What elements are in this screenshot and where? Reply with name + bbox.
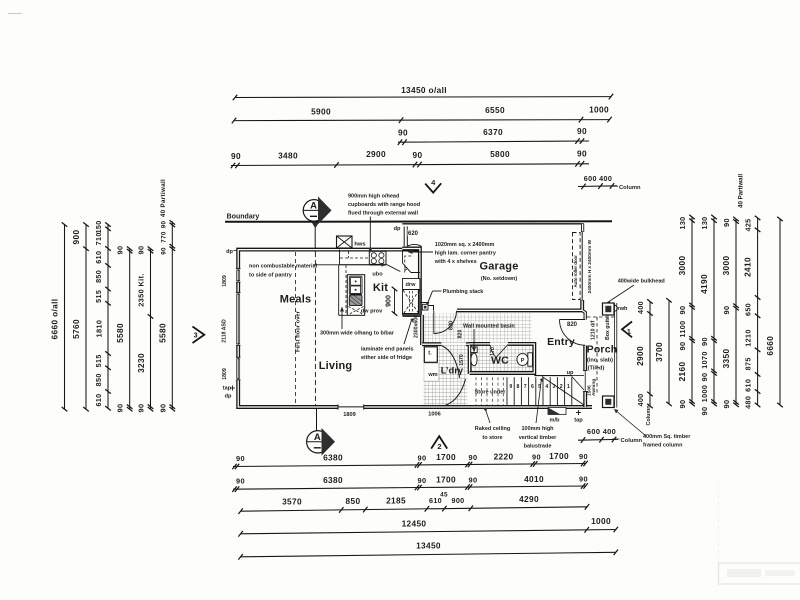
kitchen bench dashed overhead cupboards (340, 251, 369, 258)
svg-text:3000: 3000 (721, 256, 731, 276)
boundary line (225, 220, 612, 223)
svg-text:600 400: 600 400 (584, 174, 612, 183)
svg-text:90: 90 (116, 246, 125, 255)
dim top row 600/400 column (578, 174, 617, 189)
dim top row overall 13450 (233, 85, 613, 100)
svg-text:dw prov: dw prov (361, 309, 383, 315)
elevation marker 2 (431, 436, 447, 451)
svg-text:1809: 1809 (343, 412, 355, 418)
dim bottom row1 90/6380/90/1700/90/2220/90/1700/90 (232, 451, 588, 469)
svg-text:either side of fridge: either side of fridge (361, 355, 412, 361)
svg-text:170: 170 (490, 347, 496, 356)
svg-text:90: 90 (722, 400, 731, 409)
svg-text:90: 90 (678, 342, 687, 351)
svg-text:Column: Column (621, 438, 643, 444)
svg-text:Porch: Porch (587, 344, 618, 356)
svg-text:820: 820 (567, 322, 578, 328)
hws unit (337, 236, 366, 248)
svg-text:flued through external wall: flued through external wall (348, 211, 418, 217)
dim left partywall 90/770/90/40 + 5580/90 (157, 179, 175, 413)
window left 1809 upper (236, 269, 241, 283)
svg-text:wm: wm (427, 372, 437, 378)
laundry door arcs (442, 346, 466, 406)
svg-text:rwh: rwh (618, 306, 629, 312)
fridge cabinet dashed cross (403, 290, 420, 315)
svg-text:4: 4 (545, 384, 548, 390)
svg-text:dp: dp (226, 249, 233, 255)
svg-text:L’dry: L’dry (441, 366, 464, 376)
svg-text:1809: 1809 (222, 368, 228, 380)
svg-text:2400mm H x 2400mm W: 2400mm H x 2400mm W (587, 239, 593, 293)
svg-text:90: 90 (137, 246, 146, 255)
svg-text:90: 90 (116, 404, 125, 413)
svg-text:1700: 1700 (549, 451, 569, 461)
svg-text:cupboards with range hood: cupboards with range hood (348, 202, 420, 208)
kitchen bench back dashed (345, 265, 347, 315)
dim right overall 6660 (765, 217, 783, 408)
cooktop (369, 251, 386, 264)
svg-text:650: 650 (744, 303, 753, 316)
svg-text:90: 90 (469, 453, 478, 462)
svg-text:90: 90 (577, 126, 587, 136)
svg-text:1000: 1000 (700, 385, 709, 402)
svg-text:130: 130 (700, 216, 709, 229)
wc toilet right (517, 353, 532, 366)
svg-text:Plumbing stack: Plumbing stack (443, 289, 485, 295)
note plumbing stack (426, 289, 484, 306)
faint top-left scan mark (8, 13, 22, 15)
svg-text:(Tiled): (Tiled) (588, 366, 605, 372)
dim right chain 90/3000/90/3350/90 (721, 217, 739, 409)
svg-text:90: 90 (160, 247, 167, 255)
svg-text:100mm high: 100mm high (521, 426, 554, 432)
dim bottom 600/400 (578, 427, 618, 443)
svg-text:1020mm sq. x 2400mm: 1020mm sq. x 2400mm (435, 242, 495, 248)
note 300mm overhang (320, 307, 395, 337)
svg-text:Box gutter: Box gutter (605, 314, 611, 340)
svg-text:Store under: Store under (475, 390, 507, 396)
note 1020mm corner pantry (408, 242, 497, 265)
pantry drw box (403, 279, 420, 290)
laundry wm space (424, 364, 439, 382)
stair top edge right (572, 375, 584, 377)
porch column top rwh (603, 303, 629, 315)
elevation marker 1 (622, 322, 632, 338)
dim top row 90/3480/2900/90/5800/90 (231, 149, 589, 169)
island sink double bowl (349, 276, 362, 294)
svg-text:90: 90 (236, 454, 245, 463)
garage right wall lower + bottom wall (457, 300, 582, 310)
svg-text:850: 850 (94, 270, 103, 283)
dim bottom row3 3570/850/2185/610/45/900/4290 (238, 491, 589, 514)
svg-text:high lam. corner pantry: high lam. corner pantry (435, 251, 497, 257)
laundry top wall right + wc left wall (466, 344, 470, 374)
svg-text:12450: 12450 (402, 518, 427, 528)
svg-text:620: 620 (408, 231, 419, 237)
svg-text:1: 1 (627, 327, 631, 336)
note 400mm sq timber framed column (614, 409, 691, 449)
tap left (223, 386, 235, 392)
svg-text:6370: 6370 (483, 127, 503, 137)
svg-text:610: 610 (94, 251, 103, 264)
island dishwasher hatched (349, 295, 362, 306)
svg-text:1: 1 (567, 384, 570, 390)
dim top row 90/6370/90 (398, 126, 589, 145)
section marker A top cut arrow below boundary (312, 223, 319, 229)
svg-text:hws: hws (354, 242, 365, 248)
svg-text:2220: 2220 (494, 452, 514, 462)
dim right 3700 (654, 298, 672, 406)
dim 900 island (386, 287, 398, 316)
svg-text:1810: 1810 (95, 320, 104, 338)
svg-text:90: 90 (413, 150, 423, 160)
svg-text:3700: 3700 (654, 342, 664, 362)
svg-text:130: 130 (678, 216, 687, 229)
svg-text:6380: 6380 (323, 475, 343, 485)
svg-text:1210: 1210 (744, 329, 753, 346)
svg-text:875: 875 (744, 357, 753, 370)
porch column bottom (603, 396, 615, 408)
wc top right + right wall + bottom wall (470, 344, 535, 373)
svg-text:610: 610 (744, 379, 753, 392)
dim bottom row4 12450/1000 (238, 516, 618, 537)
tile floor hallway (424, 314, 532, 344)
garage partywall inner line (402, 223, 584, 225)
laundry top wall left segment (422, 342, 441, 346)
svg-text:drw: drw (406, 282, 417, 288)
section line A-A vertical (315, 199, 317, 431)
section marker A top (303, 197, 331, 225)
note raked ceiling to store (475, 408, 510, 441)
svg-text:1809: 1809 (222, 275, 228, 287)
svg-text:820: 820 (449, 321, 455, 330)
hall left wall piece (420, 315, 424, 345)
window bottom living 1809 (338, 404, 364, 409)
wall step hall (420, 303, 434, 311)
note 900mm high overhead cupboards (348, 194, 420, 254)
note laminate end panels (361, 318, 414, 361)
dim bottom row5 13450 (238, 541, 618, 560)
window left 2118 ASD (236, 293, 241, 346)
garage roller door dashed (573, 233, 581, 300)
svg-text:400: 400 (636, 393, 645, 406)
svg-text:2410: 2410 (743, 257, 753, 277)
svg-text:A: A (310, 201, 317, 212)
svg-text:6550: 6550 (485, 105, 505, 115)
kitchen counter front edge (340, 250, 401, 272)
svg-text:900: 900 (386, 295, 393, 307)
svg-text:1700: 1700 (436, 475, 456, 485)
garage right wall top corner (581, 224, 584, 232)
note wall mounted basin (463, 324, 515, 353)
stair landing edge (572, 377, 584, 391)
svg-text:non combustable material: non combustable material (249, 264, 318, 270)
tile floor laundry (424, 345, 468, 405)
stair treads numbered 9-1 (507, 377, 572, 405)
dim bottom row2 90/6380/90/1700/90/4010/90 (232, 474, 588, 492)
svg-text:Column: Column (646, 405, 652, 425)
svg-text:2118 ASD: 2118 ASD (222, 319, 228, 343)
svg-text:90: 90 (418, 453, 427, 462)
door 820 garage to hall (434, 311, 457, 334)
svg-text:900mm high o/head: 900mm high o/head (348, 194, 399, 200)
right wall lower to corner (583, 392, 587, 408)
svg-text:Living: Living (319, 360, 353, 372)
svg-text:dp: dp (225, 394, 232, 400)
dim right porch 400/2900/400 (635, 299, 653, 408)
svg-text:400mm Sq. timber: 400mm Sq. timber (643, 434, 691, 440)
window left 1809 lower (236, 357, 241, 380)
laundry tub (424, 347, 437, 363)
svg-text:515: 515 (94, 354, 103, 367)
svg-text:600 400: 600 400 (587, 427, 616, 436)
svg-text:3230: 3230 (136, 353, 146, 373)
porch bulkhead dashed (587, 317, 616, 394)
svg-text:Auto roller door: Auto roller door (573, 255, 578, 288)
svg-text:1700: 1700 (436, 452, 456, 462)
svg-text:90: 90 (236, 476, 245, 485)
svg-text:770: 770 (160, 231, 167, 243)
svg-text:1006: 1006 (428, 412, 440, 418)
stair winder diagonal (542, 377, 584, 406)
svg-text:9: 9 (509, 384, 512, 390)
svg-text:90: 90 (678, 306, 687, 315)
svg-text:3480: 3480 (278, 150, 298, 160)
svg-text:5900: 5900 (311, 107, 331, 117)
svg-text:40 Partiwall: 40 Partiwall (160, 179, 167, 217)
wc top wall left of door (470, 342, 490, 346)
svg-text:7: 7 (524, 384, 527, 390)
note 400wide bulkhead (606, 279, 665, 306)
svg-text:laminate end panels: laminate end panels (361, 347, 414, 353)
svg-text:90: 90 (398, 127, 408, 137)
external walls living block (238, 250, 592, 407)
svg-text:710: 710 (94, 232, 103, 245)
elevation marker 4 (425, 178, 441, 192)
svg-text:Awning: Awning (591, 379, 597, 396)
dim left 900/5760 (71, 222, 89, 411)
svg-text:480: 480 (744, 396, 753, 409)
svg-text:425: 425 (744, 218, 753, 231)
svg-text:90: 90 (577, 149, 587, 159)
svg-text:4290: 4290 (519, 494, 539, 504)
svg-text:with 4 x shelves: with 4 x shelves (434, 259, 477, 265)
door 620 garage top (404, 227, 421, 247)
svg-text:850: 850 (346, 496, 361, 506)
stair top edge (534, 375, 572, 377)
svg-text:P: P (521, 358, 525, 364)
svg-text:t.: t. (428, 351, 432, 357)
dim left 90/2350Kit/3230/90 (136, 246, 154, 413)
svg-text:90: 90 (700, 337, 709, 346)
svg-text:Raked ceiling: Raked ceiling (475, 426, 510, 432)
faint title block (719, 484, 800, 584)
svg-text:ubo: ubo (372, 272, 383, 278)
svg-text:framed column: framed column (643, 443, 683, 449)
porch right edge double line (615, 303, 617, 408)
svg-text:90: 90 (160, 221, 167, 229)
svg-text:up: up (567, 370, 574, 376)
svg-text:3350: 3350 (721, 349, 731, 369)
tap bottom right (574, 410, 583, 424)
svg-text:2160: 2160 (677, 362, 687, 382)
dim right chain 130/3000/90/1100/90/2160/90 (677, 215, 695, 409)
island bench outline (347, 275, 364, 316)
svg-text:90: 90 (418, 476, 427, 485)
svg-text:2: 2 (437, 442, 441, 451)
svg-text:3570: 3570 (282, 497, 302, 507)
island dashed cross (349, 307, 364, 315)
svg-text:90: 90 (722, 218, 731, 227)
tile floor wc (471, 345, 533, 372)
mb meter box (548, 408, 566, 424)
svg-text:5800: 5800 (490, 149, 510, 159)
svg-text:90: 90 (158, 404, 167, 413)
svg-text:900: 900 (71, 230, 81, 245)
svg-text:90: 90 (579, 452, 588, 461)
entry right wall stub above door (582, 310, 585, 319)
svg-text:90: 90 (678, 400, 687, 409)
svg-text:Meals: Meals (280, 294, 312, 306)
svg-text:Wall mounted basin: Wall mounted basin (463, 324, 515, 330)
svg-text:Garage: Garage (479, 261, 518, 273)
svg-text:850: 850 (94, 373, 103, 386)
svg-text:to side of pantry: to side of pantry (249, 273, 293, 279)
svg-text:90: 90 (579, 474, 588, 483)
svg-text:balustrade: balustrade (524, 444, 552, 450)
svg-text:Kit: Kit (373, 282, 388, 294)
svg-text:Entry: Entry (547, 336, 575, 348)
elevation marker 3 (193, 327, 205, 344)
dim right chain 130/4190/90/1070/90/1000/90 (699, 215, 717, 416)
svg-text:5580: 5580 (157, 323, 167, 343)
dim right chain 425/2410/650/1210/875/610/480 (743, 216, 761, 409)
svg-text:8: 8 (517, 384, 520, 390)
svg-text:to store: to store (482, 435, 502, 441)
svg-text:1000: 1000 (589, 105, 609, 115)
label First floor over dashed (296, 252, 302, 404)
breakfast bar overhang edge (339, 265, 348, 316)
svg-text:m/b: m/b (550, 418, 561, 424)
kitchen right wall + bottom return (402, 249, 420, 315)
entry right wall below door (583, 346, 587, 371)
corner pantry outline (403, 251, 420, 273)
svg-text:(inc. slab): (inc. slab) (587, 358, 613, 364)
svg-text:40 Partiwall: 40 Partiwall (738, 174, 745, 208)
svg-text:300mm wide o/hang to b/bar: 300mm wide o/hang to b/bar (320, 331, 395, 337)
svg-text:150: 150 (94, 220, 103, 233)
svg-text:tap: tap (223, 386, 232, 392)
svg-text:p: p (404, 266, 408, 272)
svg-text:2300x600: 2300x600 (414, 315, 420, 338)
svg-text:dp: dp (394, 226, 401, 232)
svg-text:4010: 4010 (524, 474, 544, 484)
svg-text:Column: Column (619, 185, 641, 191)
svg-text:6660: 6660 (765, 336, 775, 356)
svg-text:45: 45 (440, 491, 448, 498)
svg-text:vertical timber: vertical timber (519, 435, 557, 441)
note 100mm balustrade (519, 378, 557, 450)
garage roller door opening jamb line (581, 231, 583, 301)
svg-text:A: A (314, 432, 321, 443)
door 820 entry (560, 320, 586, 346)
note non combustable material (249, 263, 387, 279)
svg-text:90: 90 (700, 407, 709, 416)
svg-text:1070: 1070 (700, 351, 709, 368)
svg-text:tap: tap (574, 418, 583, 424)
plumbing stack box (422, 304, 428, 310)
svg-text:515: 515 (94, 290, 103, 303)
svg-text:2900: 2900 (366, 149, 386, 159)
svg-text:1570: 1570 (459, 354, 465, 366)
svg-text:90: 90 (231, 151, 241, 161)
svg-text:4190: 4190 (699, 274, 709, 294)
svg-text:90: 90 (532, 453, 541, 462)
svg-text:6: 6 (531, 384, 534, 390)
stair store-under dashed treads (476, 377, 503, 405)
svg-text:5580: 5580 (115, 323, 125, 343)
svg-text:1100: 1100 (678, 321, 687, 338)
wc door leaf (491, 345, 509, 358)
svg-text:(No. setdown): (No. setdown) (481, 276, 518, 282)
wc toilet left (471, 347, 477, 366)
svg-text:2185: 2185 (386, 496, 406, 506)
svg-text:90: 90 (722, 306, 731, 315)
dim left overall 6660 (50, 222, 68, 411)
svg-text:400: 400 (636, 301, 645, 314)
window entry right wall (583, 371, 588, 392)
label 1506 awning rotated (587, 379, 597, 396)
section marker A bottom (307, 428, 335, 456)
svg-text:90: 90 (700, 373, 709, 382)
dim top row 5900/6550/1000 (232, 105, 612, 124)
svg-text:1210 d/f: 1210 d/f (591, 320, 597, 340)
svg-text:13450 o/all: 13450 o/all (401, 85, 447, 95)
svg-text:Boundary: Boundary (227, 214, 260, 221)
svg-text:6660 o/all: 6660 o/all (50, 299, 60, 340)
svg-text:2900: 2900 (635, 346, 645, 366)
svg-text:400wide bulkhead: 400wide bulkhead (618, 279, 665, 285)
svg-text:13450: 13450 (416, 541, 441, 551)
svg-text:5760: 5760 (71, 319, 81, 339)
svg-text:90: 90 (469, 476, 478, 485)
svg-text:6380: 6380 (323, 452, 343, 462)
svg-text:90: 90 (137, 404, 146, 413)
svg-text:3000: 3000 (677, 256, 687, 276)
svg-text:1000: 1000 (591, 516, 611, 526)
svg-text:2350 Kit.: 2350 Kit. (137, 273, 146, 307)
dim left chain 150/710/610/850/515/1810/515/850/610 (94, 220, 111, 410)
svg-text:First floor over: First floor over (296, 310, 302, 352)
svg-text:610: 610 (94, 393, 103, 406)
dim left 90/5580/90 (115, 246, 133, 413)
svg-text:820: 820 (458, 330, 464, 339)
svg-text:900: 900 (451, 496, 464, 505)
svg-text:3: 3 (194, 331, 198, 340)
